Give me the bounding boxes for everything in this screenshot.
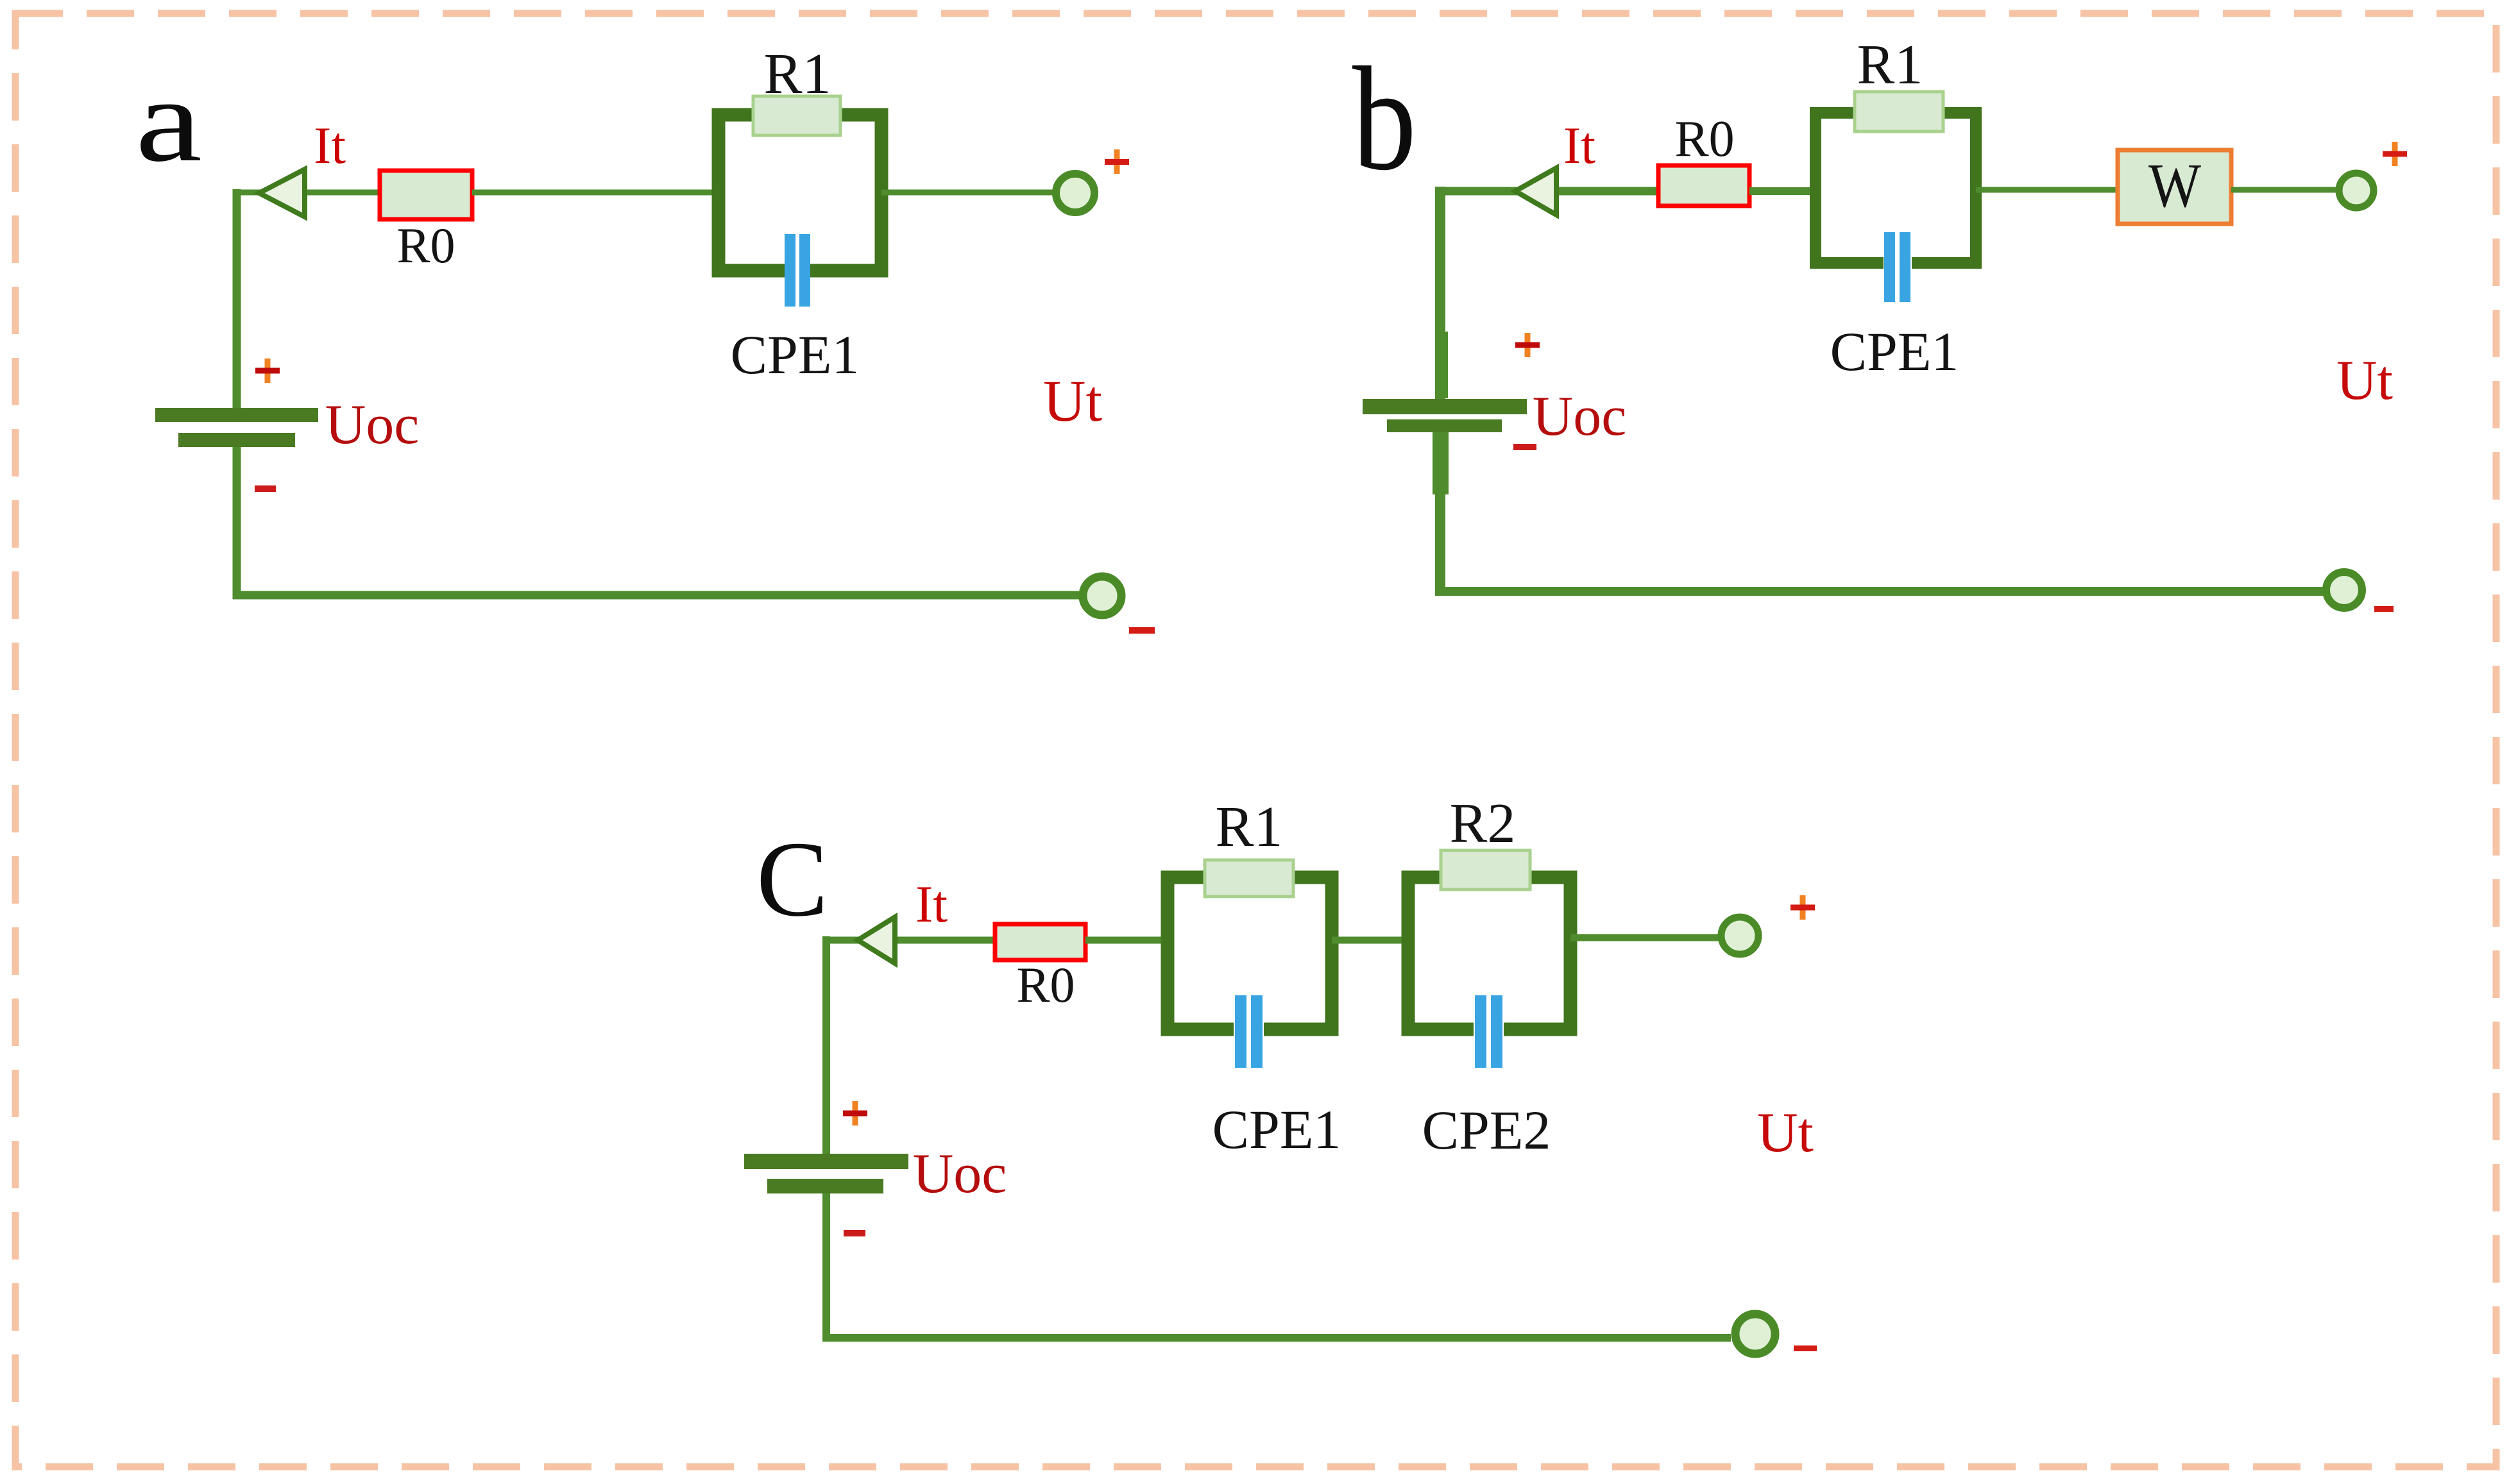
svg-text:R0: R0 bbox=[396, 217, 455, 273]
wire b: battery to bottom corner bbox=[1435, 494, 1445, 596]
resistor R2 (c) bbox=[1441, 850, 1530, 890]
gap in block2 bottom for CPE2 (c) bbox=[1474, 1017, 1504, 1043]
RC block1 frame c bbox=[1168, 877, 1332, 1029]
wire a: bottom horizontal bbox=[233, 591, 1079, 600]
battery Uoc (c): short plate bbox=[767, 1179, 883, 1193]
wire b: left vertical bbox=[1435, 187, 1445, 399]
battery Uoc (b): upper lead tick bbox=[1442, 332, 1448, 398]
capacitor CPE1 (b) bbox=[1884, 232, 1910, 302]
battery Uoc (b): lower lead stub bbox=[1433, 432, 1449, 494]
resistor R0 (c) bbox=[995, 924, 1085, 960]
terminal + (a) bbox=[1056, 174, 1094, 212]
plus sign at battery (a) bbox=[255, 358, 280, 383]
arrow It (c) bbox=[858, 917, 895, 963]
svg-text:CPE1: CPE1 bbox=[731, 324, 860, 385]
wire c: battery to bottom corner bbox=[822, 1193, 830, 1342]
svg-text:Uoc: Uoc bbox=[325, 394, 420, 456]
svg-text:b: b bbox=[1352, 37, 1416, 201]
gap in block bottom for CPE1 (b) bbox=[1884, 251, 1912, 274]
svg-text:Uoc: Uoc bbox=[913, 1143, 1007, 1205]
capacitor CPE1 (c) bbox=[1235, 995, 1263, 1068]
capacitor CPE2 (c) bbox=[1475, 995, 1502, 1068]
terminal + (b) bbox=[2339, 173, 2374, 208]
terminal - (a) bbox=[1083, 577, 1121, 615]
terminal + (c) bbox=[1721, 917, 1758, 954]
plus sign at battery (c) bbox=[843, 1101, 867, 1126]
svg-text:R1: R1 bbox=[763, 42, 831, 106]
capacitor CPE1 (a) bbox=[785, 234, 810, 307]
wire b: bottom horizontal bbox=[1436, 587, 2323, 596]
minus sign at terminal (a) bbox=[1129, 627, 1155, 634]
battery Uoc (c): long plate bbox=[744, 1154, 908, 1169]
resistor R0 (a) bbox=[380, 171, 472, 219]
svg-text:CPE1: CPE1 bbox=[1212, 1099, 1341, 1160]
battery Uoc (a): short plate bbox=[178, 433, 295, 447]
resistor R1 (c) bbox=[1205, 860, 1293, 897]
Warburg element W (b) bbox=[2118, 150, 2231, 224]
battery Uoc (a): long plate bbox=[155, 408, 318, 422]
wire c: bottom horizontal bbox=[822, 1334, 1731, 1342]
battery Uoc (b): long plate bbox=[1363, 399, 1527, 414]
minus sign at battery (a) bbox=[255, 485, 276, 492]
resistor R0 (b) bbox=[1658, 165, 1749, 206]
minus sign at battery (c) bbox=[844, 1230, 865, 1236]
plus sign at battery (b) bbox=[1515, 333, 1540, 357]
wire c: block2 to + terminal bbox=[1570, 934, 1721, 941]
wire b: block to W bbox=[1976, 187, 2118, 193]
svg-text:It: It bbox=[1563, 116, 1595, 174]
plus sign at terminal (b) bbox=[2383, 142, 2407, 166]
wire a: corner to R0 bbox=[233, 190, 380, 196]
svg-text:Ut: Ut bbox=[1043, 368, 1102, 434]
plus sign at terminal (c) bbox=[1790, 895, 1815, 920]
arrow It (a) bbox=[259, 169, 305, 217]
gap in block1 bottom for CPE1 (c) bbox=[1234, 1017, 1264, 1043]
RC block2 frame c bbox=[1408, 877, 1570, 1029]
gap in block bottom for CPE1 (a) bbox=[785, 258, 810, 284]
svg-text:CPE2: CPE2 bbox=[1422, 1099, 1551, 1161]
svg-text:a: a bbox=[135, 55, 202, 187]
svg-text:CPE1: CPE1 bbox=[1830, 321, 1959, 382]
wire a: block to + terminal bbox=[881, 190, 1055, 196]
svg-text:R1: R1 bbox=[1857, 34, 1923, 96]
wire c: block1 to block2 bbox=[1332, 937, 1408, 944]
wire b: W to + terminal bbox=[2231, 187, 2339, 193]
plus sign at terminal (a) bbox=[1105, 149, 1129, 174]
RC block frame b bbox=[1816, 113, 1976, 263]
svg-text:R0: R0 bbox=[1016, 957, 1075, 1013]
wire a: left vertical from corner to battery bbox=[233, 189, 241, 409]
RC block frame a bbox=[719, 115, 881, 271]
wire a: R0 to RC block bbox=[472, 190, 719, 196]
wire c: R0 to block1 bbox=[1085, 937, 1168, 944]
wire c: corner to R0 bbox=[822, 937, 995, 944]
wire b: R0 to RC block bbox=[1749, 187, 1816, 195]
minus sign at terminal (b) bbox=[2374, 606, 2394, 612]
svg-text:C: C bbox=[756, 820, 828, 939]
svg-text:It: It bbox=[915, 875, 948, 933]
arrow It (b) bbox=[1515, 168, 1556, 215]
svg-text:W: W bbox=[2148, 151, 2201, 221]
resistor R1 (a) bbox=[753, 96, 840, 135]
svg-text:R2: R2 bbox=[1450, 793, 1516, 855]
svg-text:R0: R0 bbox=[1674, 111, 1734, 167]
svg-text:Uoc: Uoc bbox=[1533, 385, 1627, 448]
svg-text:R1: R1 bbox=[1215, 795, 1282, 859]
battery Uoc (b): short plate bbox=[1387, 419, 1502, 432]
svg-text:Ut: Ut bbox=[2336, 350, 2393, 412]
minus sign at terminal (c) bbox=[1794, 1345, 1817, 1351]
terminal - (b) bbox=[2326, 572, 2362, 608]
terminal - (c) bbox=[1735, 1314, 1775, 1354]
wire a: battery to bottom corner bbox=[233, 447, 241, 599]
svg-text:Ut: Ut bbox=[1757, 1102, 1814, 1164]
wire b: corner to R0 bbox=[1436, 187, 1658, 196]
resistor R1 (b) bbox=[1855, 92, 1943, 131]
wire c: left vertical upper bbox=[822, 936, 830, 1154]
svg-text:It: It bbox=[314, 116, 346, 174]
minus sign at battery (b) bbox=[1513, 444, 1536, 450]
